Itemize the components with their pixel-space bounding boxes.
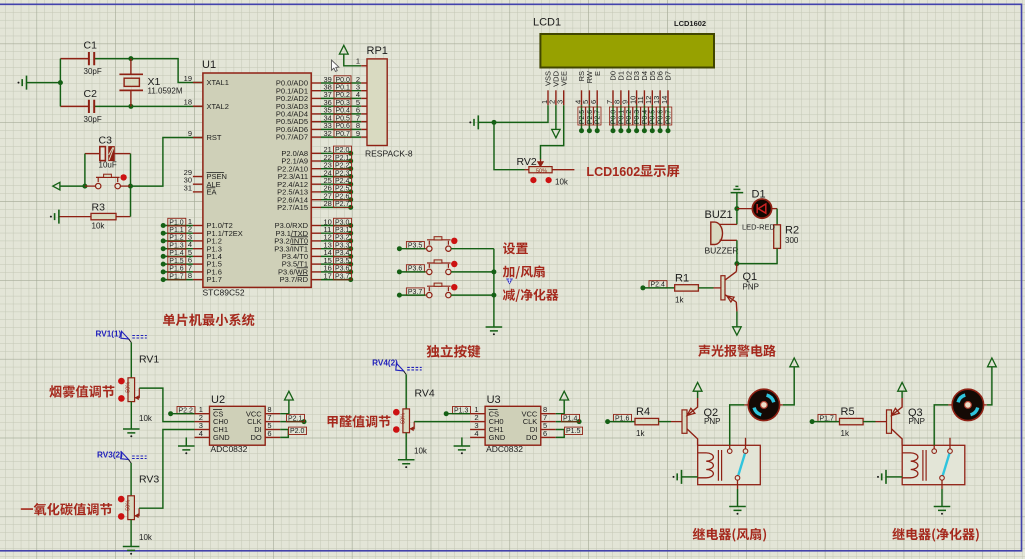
svg-text:C2: C2 bbox=[84, 88, 98, 100]
U3 pin 3 CH1 bbox=[470, 429, 485, 431]
U2 pin 8 VCC bbox=[265, 413, 280, 415]
wire relay Q2 bottom to ground bbox=[737, 480, 739, 489]
svg-text:P0.7/AD7: P0.7/AD7 bbox=[276, 133, 308, 142]
svg-text:10k: 10k bbox=[414, 447, 428, 456]
ground RV3 bbox=[123, 547, 140, 551]
svg-text:P2.7: P2.7 bbox=[335, 201, 350, 208]
svg-text:6: 6 bbox=[267, 429, 271, 438]
potentiometer RV3 body bbox=[128, 496, 135, 520]
reset push button bbox=[85, 185, 96, 187]
terminal P3.5 bbox=[321, 263, 351, 265]
U3 pin 8 VCC bbox=[541, 413, 556, 415]
U1 pin 6 P1.5 bbox=[193, 263, 203, 265]
svg-text:GND: GND bbox=[489, 433, 506, 442]
svg-text:D7: D7 bbox=[664, 71, 673, 81]
terminal P0.0 (LCD) bbox=[612, 105, 614, 131]
terminal P3.7 bbox=[321, 279, 351, 281]
svg-text:RV3(2): RV3(2) bbox=[97, 451, 123, 460]
transistor Q2 PNP bbox=[682, 410, 687, 433]
U1 pin 25 P2.4/A12 bbox=[311, 183, 321, 185]
svg-text:P2.6: P2.6 bbox=[335, 194, 350, 201]
svg-text:P2.3: P2.3 bbox=[335, 170, 350, 177]
wire VSS to ground rail bbox=[494, 105, 548, 122]
wire P1.7 to R5 bbox=[812, 421, 839, 423]
wire R5 to Q3 base bbox=[863, 421, 875, 423]
net label P0.0 bbox=[334, 76, 351, 83]
U2 pin 4 GND bbox=[195, 436, 210, 438]
crystal X1 bbox=[130, 59, 132, 75]
terminal P1.7 bbox=[163, 279, 193, 281]
wire motor Q3 to power arrow bbox=[983, 404, 987, 406]
U1 pin 28 P2.7/A15 bbox=[311, 206, 321, 208]
svg-text:30pF: 30pF bbox=[84, 115, 102, 124]
capacitor C1 bbox=[89, 52, 94, 65]
wire C2 bottom row to XTAL2 bbox=[60, 105, 89, 107]
svg-text:P2.7/A15: P2.7/A15 bbox=[277, 203, 308, 212]
svg-text:U3: U3 bbox=[487, 394, 501, 406]
wire RV4 bottom to ground bbox=[405, 433, 407, 460]
wire buzzer bottom lead bbox=[720, 239, 737, 241]
resistor pack RP1 body bbox=[367, 59, 387, 146]
svg-text:RP1: RP1 bbox=[367, 45, 388, 57]
net label P0.6 bbox=[334, 122, 351, 129]
svg-text:P1.3: P1.3 bbox=[169, 243, 184, 250]
terminal P3.6 bbox=[321, 271, 351, 273]
terminal P2.5 bbox=[321, 191, 351, 193]
terminal P1.0 bbox=[163, 225, 193, 227]
U1 pin 26 P2.5/A13 bbox=[311, 191, 321, 193]
RP1 pin 2 bbox=[361, 82, 367, 84]
terminal P2.6 bbox=[321, 199, 351, 201]
svg-text:P1.1: P1.1 bbox=[169, 227, 184, 234]
wire Q1 emitter to ground arrow bbox=[736, 311, 738, 327]
svg-text:Q1: Q1 bbox=[743, 271, 758, 283]
svg-text:50%: 50% bbox=[126, 382, 132, 393]
svg-text:10k: 10k bbox=[139, 414, 153, 423]
power arrow Q2 emitter bbox=[693, 382, 702, 391]
U2 pin 1 CS bbox=[195, 413, 210, 415]
svg-text:10k: 10k bbox=[92, 222, 106, 231]
svg-text:P1.6: P1.6 bbox=[169, 266, 184, 273]
svg-text:RV4(2): RV4(2) bbox=[372, 359, 398, 368]
wire LED to R2 bbox=[772, 208, 778, 210]
terminal P2.4 bbox=[321, 183, 351, 185]
svg-text:DO: DO bbox=[250, 433, 261, 442]
U1 pin 2 P1.1/T2EX bbox=[193, 232, 203, 234]
resistor R5 bbox=[840, 418, 864, 424]
terminal P3.5 bbox=[397, 246, 402, 251]
capacitor C3 electrolytic bbox=[85, 153, 100, 155]
wire relay Q2 common to motor bbox=[729, 445, 731, 449]
U1 pin 24 P2.3/A11 bbox=[311, 176, 321, 178]
junction reset button right bbox=[128, 184, 133, 189]
U1 pin 1 P1.0/T2 bbox=[193, 225, 203, 227]
svg-text:P0.5: P0.5 bbox=[650, 110, 657, 125]
svg-text:1k: 1k bbox=[841, 429, 850, 438]
red state dot RV4 top bbox=[393, 409, 400, 416]
wire power to LED junction bbox=[736, 193, 738, 225]
terminal P2.7 (LCD) bbox=[596, 105, 598, 131]
net label P0.4 bbox=[334, 107, 351, 114]
svg-text:RV2: RV2 bbox=[517, 156, 537, 168]
wire R2 to collector junction bbox=[737, 248, 777, 263]
svg-text:ADC0832: ADC0832 bbox=[211, 444, 248, 454]
label yiyanghuatan zhi tiaojie bbox=[21, 503, 112, 516]
wire P2.4 to R1 bbox=[643, 287, 675, 289]
relay Q3 common contact bbox=[932, 449, 937, 454]
svg-text:P0.2: P0.2 bbox=[626, 110, 633, 125]
svg-text:P0.3: P0.3 bbox=[634, 110, 641, 125]
U1 pin 30 ALE bbox=[193, 183, 203, 185]
U3 pin 5 DI bbox=[541, 429, 556, 431]
svg-text:18: 18 bbox=[184, 98, 192, 107]
wire U3 CLK to P1.4 bbox=[556, 421, 579, 423]
svg-text:P0.5: P0.5 bbox=[336, 115, 351, 122]
ground relay Q2 coil bbox=[673, 476, 675, 478]
svg-text:P0.7: P0.7 bbox=[336, 131, 351, 138]
svg-text:P0.6: P0.6 bbox=[336, 123, 351, 130]
U2 pin 2 CH0 bbox=[195, 421, 210, 423]
svg-text:P3.7/RD: P3.7/RD bbox=[280, 275, 309, 284]
wire P1.6 to R4 bbox=[608, 421, 635, 423]
terminal P2.1 bbox=[321, 160, 351, 162]
svg-text:P3.1: P3.1 bbox=[335, 227, 350, 234]
microcontroller U1 body bbox=[203, 73, 311, 287]
RV1 wiper bbox=[135, 388, 140, 398]
U1 pin 15 P3.5/T1 bbox=[311, 263, 321, 265]
net label P0.2 bbox=[334, 91, 351, 98]
label jidianqi fengshan bbox=[693, 528, 767, 542]
potentiometer RV1 body bbox=[128, 378, 135, 402]
terminal P2.7 bbox=[321, 206, 351, 208]
svg-text:50%: 50% bbox=[400, 413, 406, 424]
relay Q2 body bbox=[698, 445, 761, 484]
relay Q3 body bbox=[902, 445, 965, 484]
terminal P0.1 (LCD) bbox=[620, 105, 622, 131]
ground U2 GND pin bbox=[185, 437, 187, 446]
power arrow RP1 pin1 bbox=[339, 45, 348, 54]
wire P0.1 net to RP1 bbox=[321, 90, 361, 92]
label jidianqi jinghuaqi bbox=[892, 528, 979, 542]
label jia/fengshan bbox=[503, 265, 545, 278]
wire RV3 bottom to ground bbox=[130, 520, 132, 547]
terminal P3.3 bbox=[321, 248, 351, 250]
wire probe to RV1 bbox=[130, 343, 132, 378]
ground relay Q3 coil bbox=[877, 476, 879, 478]
svg-text:RV1(1): RV1(1) bbox=[96, 330, 122, 339]
svg-text:LCD1: LCD1 bbox=[533, 17, 561, 29]
motor Q3 bbox=[952, 389, 983, 420]
svg-text:P0.1: P0.1 bbox=[336, 85, 351, 92]
svg-text:BUZZER: BUZZER bbox=[705, 246, 739, 256]
wire buzzer bottom to junction bbox=[736, 240, 738, 263]
svg-text:P0.6: P0.6 bbox=[658, 110, 665, 125]
svg-text:STC89C52: STC89C52 bbox=[203, 288, 245, 298]
net label P0.7 bbox=[334, 130, 351, 137]
ground RV1 bbox=[123, 429, 140, 433]
power symbol alarm (inverted ground) bbox=[731, 186, 744, 192]
relay Q2 common contact bbox=[727, 449, 732, 454]
svg-text:P3.0: P3.0 bbox=[335, 219, 350, 226]
svg-text:P1.7: P1.7 bbox=[207, 275, 222, 284]
svg-text:R4: R4 bbox=[636, 406, 650, 418]
U3 pin 7 CLK bbox=[541, 421, 556, 423]
U1 pin 3 P1.2 bbox=[193, 240, 203, 242]
terminal P3.0 bbox=[321, 225, 351, 227]
U1 pin 11 P3.1/TXD bbox=[311, 232, 321, 234]
terminal P1.6 bbox=[605, 419, 610, 424]
U1 pin 13 P3.3/INT1 bbox=[311, 248, 321, 250]
RV3 wiper bbox=[134, 508, 139, 516]
svg-text:P2.5: P2.5 bbox=[579, 110, 586, 125]
label danpianji zuixiao xitong bbox=[163, 314, 254, 327]
wire relay Q3 common to motor bbox=[933, 445, 935, 449]
U1 pin 23 P2.2/A10 bbox=[311, 168, 321, 170]
U1 pin 4 P1.3 bbox=[193, 248, 203, 250]
svg-text:50%: 50% bbox=[536, 168, 547, 174]
wire R4 to Q2 base bbox=[659, 421, 671, 423]
wire P0.7 net to RP1 bbox=[321, 136, 361, 138]
svg-text:P3.4: P3.4 bbox=[335, 250, 350, 257]
wire probe to RV3 bbox=[130, 463, 132, 496]
svg-text:P1.4: P1.4 bbox=[169, 250, 184, 257]
relay Q2 core bbox=[718, 450, 721, 481]
net label P0.3 bbox=[334, 99, 351, 106]
U1 pin 19 XTAL1 bbox=[193, 82, 203, 84]
svg-text:LCD1602: LCD1602 bbox=[674, 19, 706, 28]
junction crystal top bbox=[128, 56, 133, 61]
U1 pin 17 P3.7/RD bbox=[311, 279, 321, 281]
svg-text:GND: GND bbox=[213, 433, 230, 442]
push button P3.5 bbox=[424, 248, 427, 250]
terminal P2.5 (LCD) bbox=[581, 105, 583, 131]
capacitor C2 bbox=[89, 100, 94, 113]
terminal P2.4 bbox=[640, 285, 645, 290]
power arrow motor Q2 bbox=[790, 358, 799, 367]
terminal P0.6 (LCD) bbox=[659, 105, 661, 131]
net label P2.0 bbox=[289, 427, 307, 434]
wire P0.5 net to RP1 bbox=[321, 121, 361, 123]
red state dot RV3 bottom bbox=[118, 513, 125, 520]
terminal P0.2 (LCD) bbox=[628, 105, 630, 131]
svg-text:BUZ1: BUZ1 bbox=[705, 209, 733, 221]
U1 pin 18 XTAL2 bbox=[193, 105, 203, 107]
junction LCD ground bbox=[492, 120, 497, 125]
RP1 pin 3 bbox=[361, 90, 367, 92]
relay Q3 switch arm bbox=[943, 454, 950, 476]
wire R3 to reset junction bbox=[130, 186, 132, 217]
red state dot RV2 right bbox=[546, 177, 552, 183]
junction reset button left bbox=[82, 184, 87, 189]
red state dot RV2 left bbox=[530, 177, 536, 183]
wire buzzer top lead bbox=[720, 223, 737, 225]
power arrow motor Q3 bbox=[988, 358, 997, 367]
red state dot P3.5 bbox=[451, 238, 457, 244]
mouse cursor bbox=[332, 60, 339, 71]
wire U3 DI-DO loop bbox=[556, 430, 564, 438]
terminal P2.3 bbox=[321, 176, 351, 178]
wire U2 DI-DO loop bbox=[280, 430, 288, 438]
svg-text:10k: 10k bbox=[139, 533, 153, 542]
terminal P1.2 bbox=[163, 240, 193, 242]
terminal P1.4 bbox=[577, 419, 582, 424]
terminal P1.1 bbox=[163, 232, 193, 234]
relay Q3 coil bbox=[902, 453, 918, 478]
U3 pin 2 CH0 bbox=[470, 421, 485, 423]
RP1 pin 8 bbox=[361, 128, 367, 130]
terminal P0.3 (LCD) bbox=[636, 105, 638, 131]
wire RV1 wiper to U2 CH0 bbox=[139, 388, 194, 422]
terminal P1.6 bbox=[163, 271, 193, 273]
label shengguang baojing dianlu bbox=[698, 345, 776, 357]
svg-text:P3.2: P3.2 bbox=[335, 235, 350, 242]
terminal P3.1 bbox=[321, 232, 351, 234]
svg-text:10k: 10k bbox=[555, 178, 569, 187]
wire U2 CLK to P2.1 bbox=[280, 421, 304, 423]
net label P1.5 bbox=[565, 427, 583, 434]
terminal P3.7 bbox=[397, 293, 402, 298]
terminal P3.4 bbox=[321, 255, 351, 257]
svg-text:VEE: VEE bbox=[559, 71, 568, 86]
red state dot RV4 bottom bbox=[393, 426, 400, 433]
terminal P0.4 (LCD) bbox=[643, 105, 645, 131]
junction collector Q1 bbox=[734, 261, 739, 266]
svg-text:XTAL1: XTAL1 bbox=[207, 78, 229, 87]
terminal P2.0 bbox=[321, 152, 351, 154]
svg-text:P3.7: P3.7 bbox=[335, 273, 350, 280]
svg-text:1k: 1k bbox=[675, 295, 684, 304]
resistor R1 bbox=[675, 285, 699, 291]
svg-text:3: 3 bbox=[556, 100, 565, 104]
svg-text:30pF: 30pF bbox=[84, 67, 102, 76]
net label P0.5 bbox=[334, 114, 351, 121]
label yanwuzhi tiaojie bbox=[49, 385, 114, 398]
ground LCD left bbox=[469, 121, 471, 123]
U1 pin 7 P1.6 bbox=[193, 271, 203, 273]
svg-text:10uF: 10uF bbox=[99, 161, 117, 170]
svg-text:PNP: PNP bbox=[909, 417, 925, 426]
svg-text:P3.3: P3.3 bbox=[335, 243, 350, 250]
label shezhi bbox=[503, 242, 528, 254]
svg-text:P2.4: P2.4 bbox=[335, 178, 350, 185]
ground R3 left bbox=[50, 216, 52, 218]
wire motor Q2 to power arrow bbox=[779, 404, 783, 406]
svg-text:P2.0: P2.0 bbox=[290, 428, 305, 435]
red state dot reset button bbox=[120, 174, 126, 180]
svg-text:E: E bbox=[593, 71, 602, 76]
U2 pin 3 CH1 bbox=[195, 429, 210, 431]
svg-text:R2: R2 bbox=[785, 225, 799, 237]
ground U3 GND pin bbox=[461, 437, 463, 446]
U1 pin 8 P1.7 bbox=[193, 279, 203, 281]
wire RV1 bottom to ground bbox=[130, 402, 132, 429]
svg-text:R3: R3 bbox=[92, 202, 106, 214]
svg-text:14: 14 bbox=[660, 96, 669, 104]
terminal P1.7 bbox=[810, 419, 815, 424]
U1 pin 34 P0.5/AD5 bbox=[311, 121, 321, 123]
ground relay Q2 bottom bbox=[729, 507, 746, 511]
junction LED row bbox=[734, 206, 739, 211]
U2 pin 7 CLK bbox=[265, 421, 280, 423]
push button P3.7 bbox=[424, 294, 427, 296]
power arrow Q3 emitter bbox=[898, 382, 907, 391]
U3 pin 1 CS bbox=[470, 413, 485, 415]
svg-text:P2.0: P2.0 bbox=[335, 147, 350, 154]
svg-text:P0.3: P0.3 bbox=[336, 100, 351, 107]
wire buttons common vertical bbox=[493, 249, 495, 327]
U1 pin 31 EA bbox=[193, 191, 203, 193]
wire P0.0 net to RP1 bbox=[321, 82, 361, 84]
transistor Q3 PNP bbox=[887, 410, 892, 433]
wire reset row to RST pin bbox=[131, 138, 203, 187]
svg-text:P2.1: P2.1 bbox=[335, 155, 350, 162]
svg-text:RST: RST bbox=[207, 133, 222, 142]
svg-text:EA: EA bbox=[207, 188, 217, 197]
label jiaquanzhi tiaojie bbox=[328, 415, 391, 427]
U1 pin 5 P1.4 bbox=[193, 255, 203, 257]
svg-text:PNP: PNP bbox=[704, 417, 720, 426]
svg-text:300: 300 bbox=[785, 236, 799, 245]
wire VEE to RV2 wiper bbox=[541, 105, 564, 159]
wire C3 left leg bbox=[84, 154, 86, 187]
svg-text:P2.1: P2.1 bbox=[288, 415, 303, 422]
svg-text:U2: U2 bbox=[211, 394, 225, 406]
terminal P2.2 bbox=[168, 411, 173, 416]
svg-text:50%: 50% bbox=[125, 500, 131, 511]
label jian/jinghuaqi bbox=[503, 289, 559, 302]
U1 pin 10 P3.0/RXD bbox=[311, 225, 321, 227]
svg-text:RV1: RV1 bbox=[139, 354, 159, 366]
relay Q2 moving contact bbox=[735, 476, 740, 481]
svg-text:9: 9 bbox=[356, 129, 360, 138]
svg-text:RESPACK-8: RESPACK-8 bbox=[365, 149, 413, 159]
svg-text:4: 4 bbox=[199, 429, 203, 438]
wire probe to RV4 bbox=[405, 374, 407, 409]
svg-text:4: 4 bbox=[474, 429, 478, 438]
ground arrow Q1 bbox=[733, 327, 742, 335]
U1 pin 33 P0.6/AD6 bbox=[311, 128, 321, 130]
resistor R2 bbox=[774, 225, 781, 249]
svg-text:LED-RED: LED-RED bbox=[742, 222, 776, 231]
terminal P1.3 bbox=[444, 411, 449, 416]
svg-text:R1: R1 bbox=[675, 272, 689, 284]
svg-text:R5: R5 bbox=[841, 406, 855, 418]
svg-text:9: 9 bbox=[188, 129, 192, 138]
wire RV3 wiper to U2 CH1 bbox=[139, 430, 194, 509]
svg-text:P1.4: P1.4 bbox=[563, 415, 578, 422]
terminal P1.4 bbox=[163, 255, 193, 257]
wire relay Q3 bottom to ground bbox=[941, 480, 943, 489]
wire R1 to Q1 base bbox=[698, 287, 713, 289]
U1 pin 39 P0.0/AD0 bbox=[311, 82, 321, 84]
svg-text:XTAL2: XTAL2 bbox=[207, 102, 229, 111]
red state dot RV1 bottom bbox=[118, 395, 125, 402]
junction buttons P3.7 bbox=[491, 293, 496, 298]
relay Q3 NC contact stub bbox=[949, 438, 951, 449]
ground top-left bbox=[18, 82, 20, 84]
svg-text:31: 31 bbox=[184, 183, 192, 192]
terminal P2.2 bbox=[321, 168, 351, 170]
ground RV4 bbox=[398, 460, 415, 464]
wire P0.6 net to RP1 bbox=[321, 128, 361, 130]
svg-text:P1.0: P1.0 bbox=[169, 219, 184, 226]
potentiometer RV2 bbox=[525, 169, 529, 171]
U3 pin 6 DO bbox=[541, 436, 556, 438]
motor Q2 bbox=[748, 389, 779, 420]
ground buttons bbox=[486, 327, 503, 331]
LCD1 screen bbox=[540, 34, 714, 68]
wire left vertical C1-C2 bbox=[59, 59, 61, 107]
